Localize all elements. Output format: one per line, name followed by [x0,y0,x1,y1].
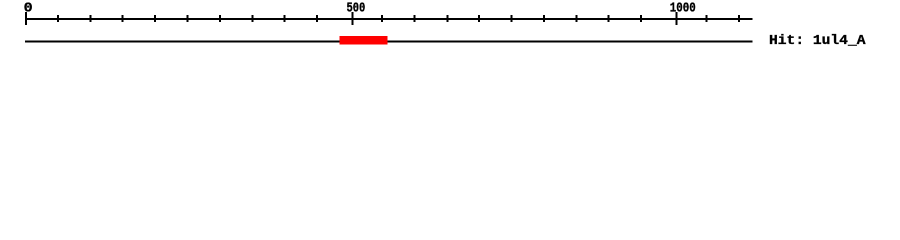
minor tick 650 [447,15,449,22]
minor tick 950 [640,15,642,22]
minor tick 350 [251,15,253,22]
major tick 0 [25,12,27,25]
hit sequence line [25,41,753,43]
minor tick 1100 [738,15,740,22]
minor tick 150 [122,15,124,22]
minor tick 200 [154,15,156,22]
minor tick 550 [381,15,383,22]
svg-text:1000: 1000 [670,1,696,17]
minor tick 800 [543,15,545,22]
hit red box [340,36,388,45]
minor tick 250 [187,15,189,22]
minor tick 1050 [705,15,707,22]
minor tick 450 [316,15,318,22]
svg-text:0: 0 [24,1,33,17]
major tick 1000 [676,12,678,25]
ruler axis line [25,18,753,20]
minor tick 100 [89,15,91,22]
minor tick 400 [284,15,286,22]
major tick 500 [352,12,354,25]
minor tick 750 [511,15,513,22]
minor tick 700 [478,15,480,22]
minor tick 300 [219,15,221,22]
minor tick 50 [57,15,59,22]
svg-text:Hit: 1ul4_A: Hit: 1ul4_A [769,33,866,49]
minor tick 850 [575,15,577,22]
svg-text:500: 500 [347,1,366,17]
minor tick 900 [608,15,610,22]
minor tick 600 [413,15,415,22]
